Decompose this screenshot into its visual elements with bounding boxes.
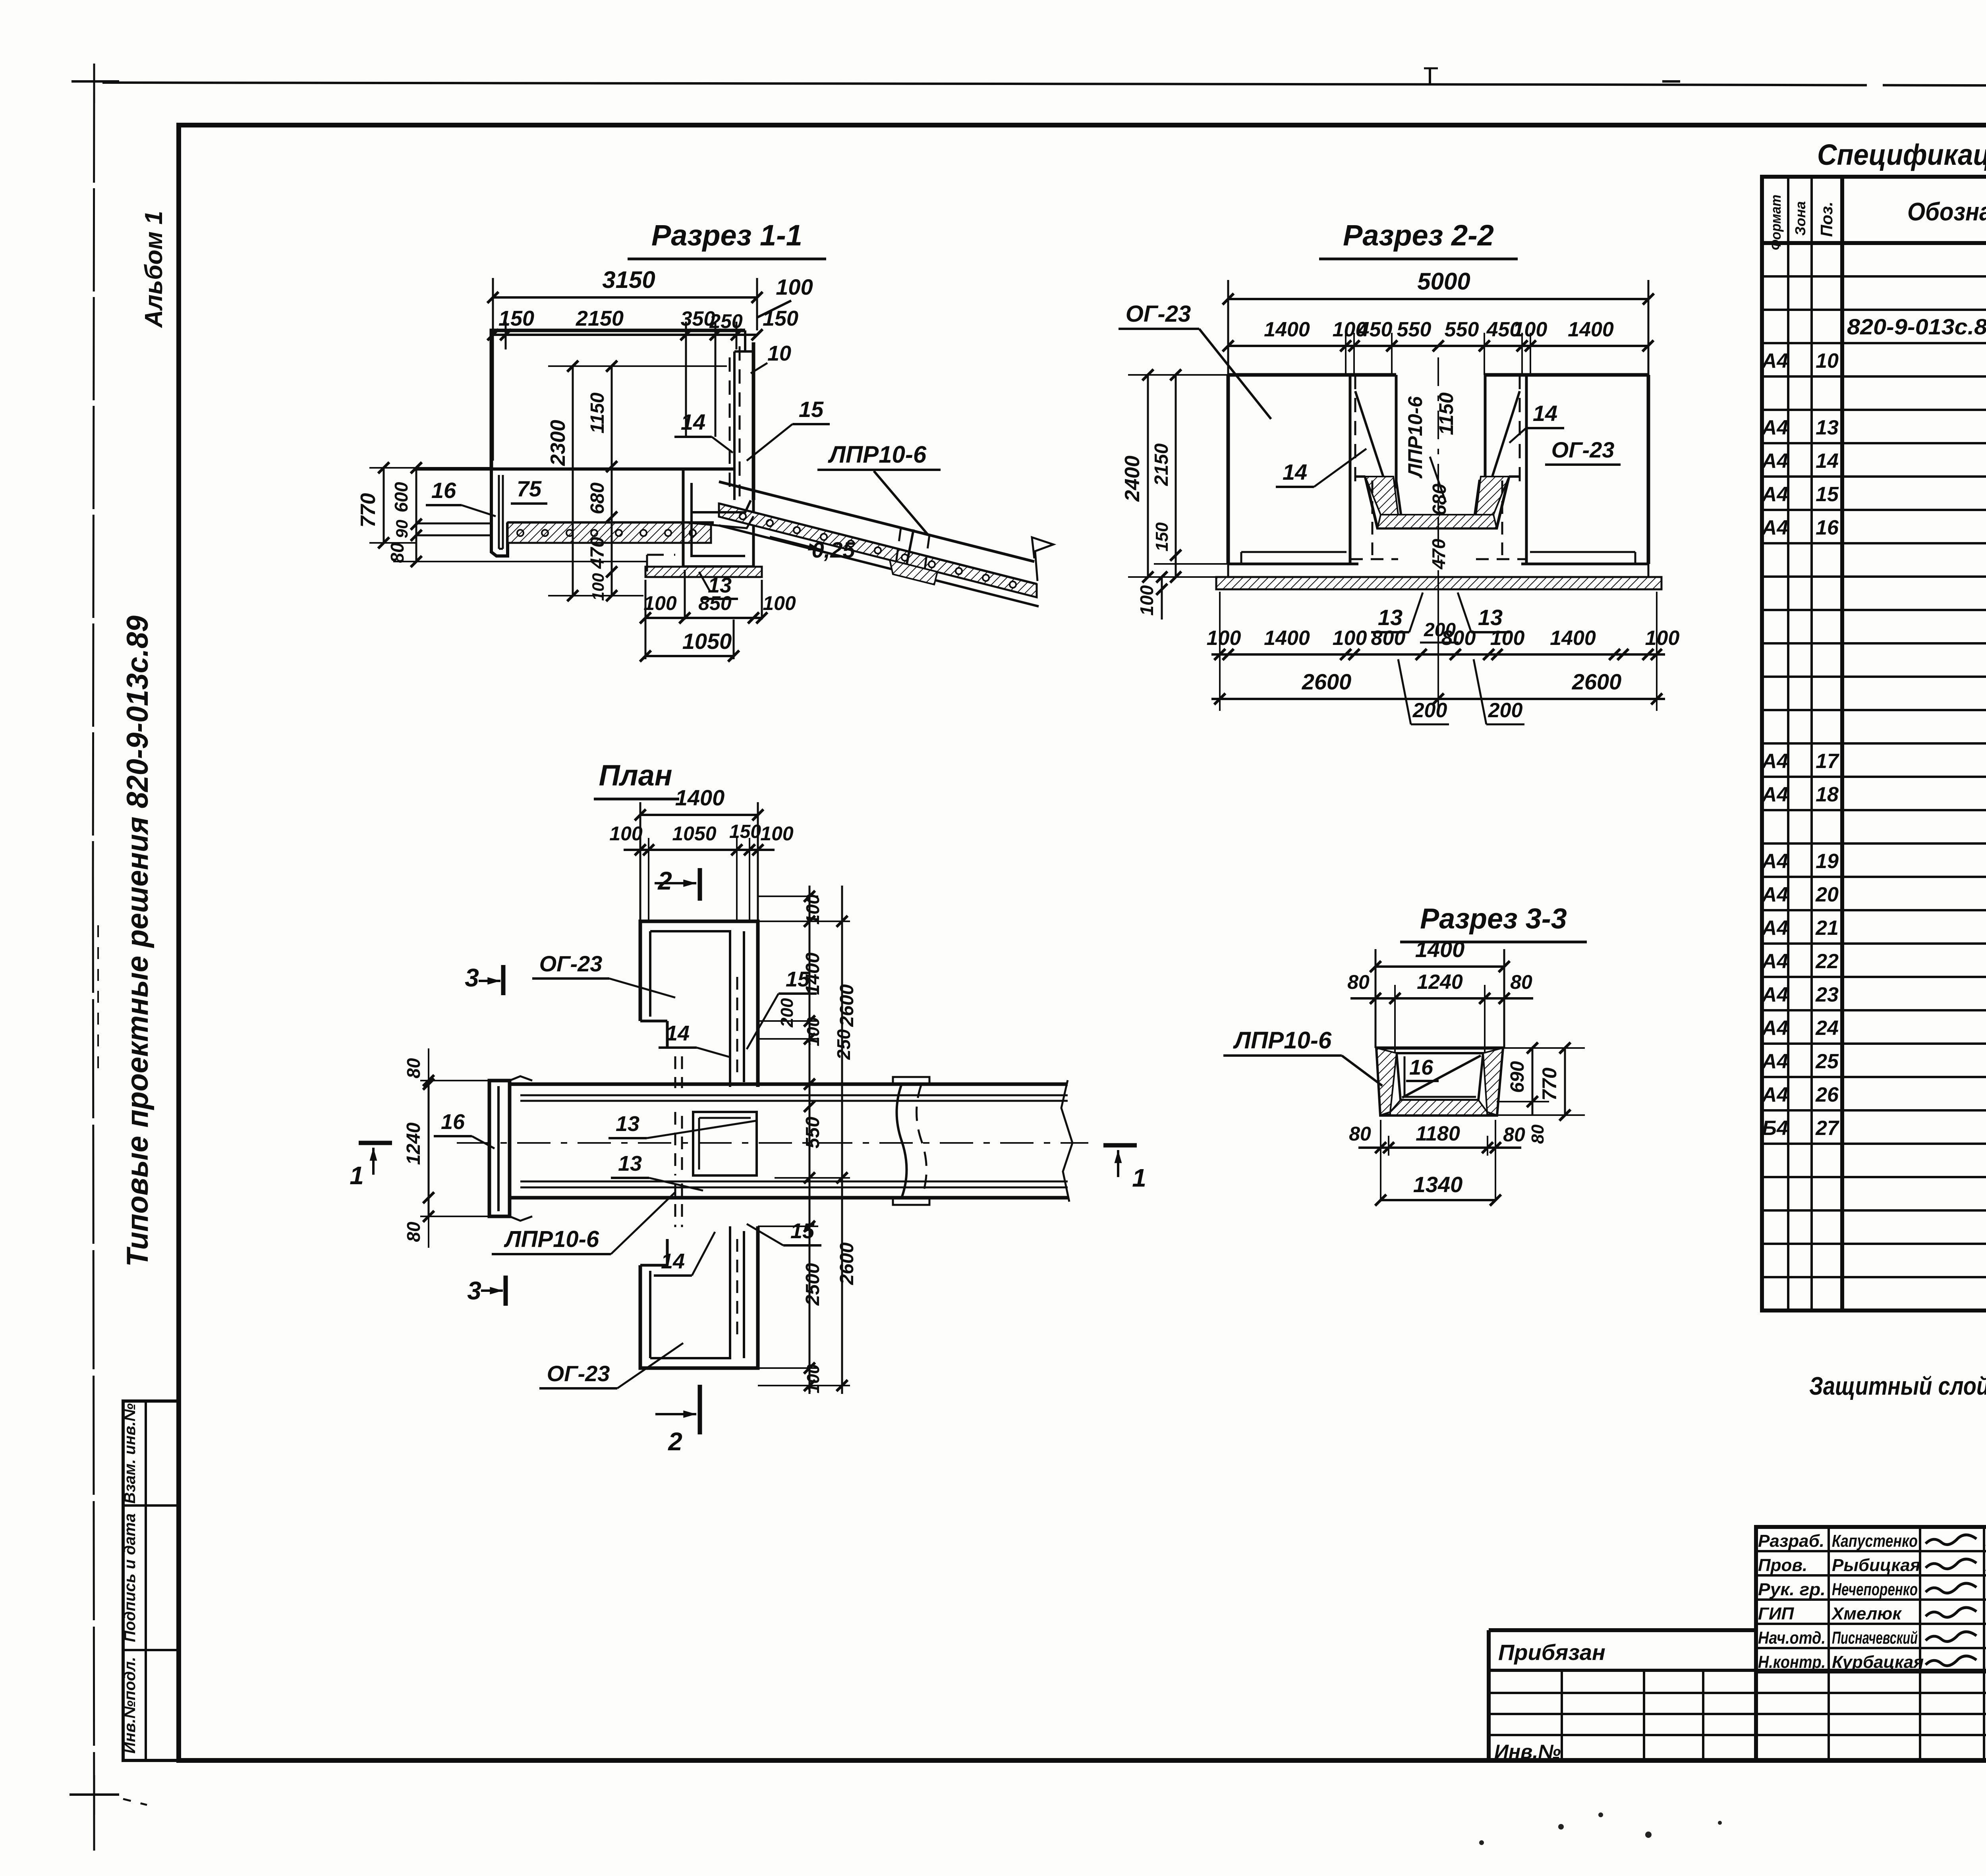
- section 2-2 centerline: [1437, 357, 1439, 627]
- svg-text:ЛПР10-6: ЛПР10-6: [1404, 396, 1426, 479]
- svg-text:10: 10: [1816, 349, 1839, 372]
- drawing frame: [179, 125, 1986, 1760]
- svg-text:Защитный слой для рабочей арма: Защитный слой для рабочей арматуры соста…: [1809, 1372, 1986, 1400]
- svg-text:Рыбицкая: Рыбицкая: [1832, 1556, 1920, 1575]
- svg-text:100: 100: [643, 592, 677, 614]
- svg-text:План: План: [599, 759, 672, 792]
- svg-text:Нач.отд.: Нач.отд.: [1758, 1628, 1826, 1648]
- svg-text:100: 100: [1136, 585, 1157, 616]
- svg-text:22: 22: [1815, 950, 1839, 973]
- svg-text:3: 3: [465, 963, 479, 992]
- svg-text:Типовые проектные решения: Типовые проектные решения 820-9-013с.89: [121, 616, 155, 1267]
- section 1-1 sloped flume LPR10-6: [719, 482, 1034, 562]
- section 2-2 base slab: [1216, 577, 1661, 589]
- svg-text:1340: 1340: [1413, 1172, 1463, 1197]
- svg-text:100: 100: [589, 573, 607, 601]
- title block signature grid: [1756, 1527, 1986, 1760]
- svg-text:2150: 2150: [576, 307, 624, 330]
- svg-text:А4: А4: [1761, 416, 1789, 439]
- section 2-2 dim 5000: [1228, 298, 1648, 300]
- plan top dim chain 100/1050/150/100: [624, 849, 775, 851]
- svg-text:470: 470: [1428, 538, 1449, 569]
- svg-text:1400: 1400: [1264, 627, 1310, 650]
- svg-text:Пров.: Пров.: [1758, 1556, 1807, 1575]
- svg-text:А4: А4: [1761, 1017, 1789, 1040]
- svg-text:ОГ-23: ОГ-23: [547, 1361, 610, 1386]
- svg-text:ЛПР10-6: ЛПР10-6: [1233, 1027, 1332, 1054]
- svg-text:Б4: Б4: [1762, 1117, 1788, 1140]
- plan flume body: [510, 1083, 1068, 1086]
- section 1-1 dim 3150: [493, 296, 757, 299]
- svg-text:26: 26: [1815, 1083, 1839, 1106]
- plan right dim chains: [809, 886, 811, 1394]
- svg-text:А4: А4: [1761, 950, 1789, 973]
- section 3-3 dim 1340: [1381, 1199, 1495, 1201]
- svg-text:5000: 5000: [1417, 268, 1470, 295]
- plan flume right break: [1061, 1080, 1072, 1202]
- svg-text:0,25: 0,25: [812, 537, 856, 562]
- svg-text:Рук. гр.: Рук. гр.: [1758, 1580, 1826, 1599]
- svg-text:А4: А4: [1761, 783, 1789, 806]
- section 3-3 dim chain 80/1240/80: [1350, 997, 1533, 1000]
- svg-text:15: 15: [799, 397, 824, 422]
- svg-text:Разрез 3-3: Разрез 3-3: [1420, 903, 1567, 935]
- svg-text:Нечепоренко: Нечепоренко: [1832, 1580, 1918, 1599]
- svg-text:200: 200: [1412, 699, 1447, 722]
- svg-text:Инв.№подл.: Инв.№подл.: [121, 1657, 139, 1754]
- svg-text:А4: А4: [1761, 1050, 1789, 1073]
- plan center crossing dashed: [674, 1056, 676, 1088]
- svg-text:200: 200: [777, 998, 797, 1028]
- svg-text:14: 14: [1283, 459, 1307, 484]
- svg-text:27: 27: [1815, 1117, 1839, 1140]
- svg-text:А4: А4: [1761, 983, 1789, 1006]
- svg-text:А4: А4: [1761, 917, 1789, 940]
- svg-text:770: 770: [1538, 1067, 1561, 1101]
- slope 0.25 arrow: [770, 537, 821, 550]
- section 1-1 rebar 14,15 dashed: [739, 346, 741, 496]
- svg-text:2400: 2400: [1121, 455, 1144, 502]
- svg-text:ГИП: ГИП: [1758, 1604, 1795, 1623]
- svg-text:Писначевский: Писначевский: [1832, 1628, 1918, 1648]
- svg-text:19: 19: [1816, 850, 1839, 873]
- svg-text:1400: 1400: [1568, 318, 1614, 341]
- svg-text:75: 75: [517, 476, 542, 501]
- svg-text:А4: А4: [1761, 1083, 1789, 1106]
- svg-text:550: 550: [1397, 318, 1432, 341]
- svg-text:1050: 1050: [682, 629, 732, 654]
- spec table column lines: [1787, 177, 1789, 1310]
- section 1-1 foundation hatched strip: [508, 523, 711, 543]
- section 2-2 dim chain 1400/100/450/550/550/450/100/1400: [1228, 345, 1648, 347]
- svg-text:1400: 1400: [675, 785, 725, 810]
- svg-text:80: 80: [403, 1058, 424, 1079]
- flume elbow at wall: [692, 500, 751, 512]
- svg-text:10: 10: [767, 342, 791, 365]
- scan corner mark bottom-left: [70, 1793, 119, 1796]
- section 1-1 floor slab: [417, 467, 734, 471]
- svg-text:450: 450: [1358, 318, 1393, 341]
- svg-text:100: 100: [802, 894, 823, 924]
- svg-text:13: 13: [616, 1112, 639, 1136]
- svg-text:1240: 1240: [403, 1122, 424, 1165]
- svg-text:13: 13: [618, 1152, 642, 1175]
- svg-text:770: 770: [357, 493, 380, 528]
- svg-text:21: 21: [1815, 917, 1839, 940]
- spec table outer border: [1762, 177, 1986, 1310]
- flume joint collar: [906, 529, 914, 566]
- svg-text:680: 680: [1429, 484, 1450, 515]
- svg-text:ЛПР10-6: ЛПР10-6: [828, 441, 927, 468]
- svg-text:80: 80: [1347, 971, 1370, 993]
- section 1-1 middle vertical dims: [572, 366, 574, 596]
- svg-text:18: 18: [1816, 783, 1839, 806]
- svg-text:1180: 1180: [1416, 1122, 1460, 1145]
- section 3-3 right dims: [1532, 1048, 1534, 1115]
- svg-text:100: 100: [763, 592, 796, 614]
- section 1-1 left dim chain: [383, 468, 385, 543]
- svg-text:14: 14: [1816, 450, 1839, 473]
- svg-text:16: 16: [441, 1110, 465, 1134]
- svg-text:14: 14: [681, 409, 705, 434]
- svg-text:1: 1: [1132, 1164, 1146, 1192]
- svg-text:14: 14: [1533, 401, 1557, 426]
- section 2-2 bottom dim chain 2: [1211, 698, 1665, 700]
- svg-text:550: 550: [1445, 318, 1479, 341]
- section 1-1 dim chain 150/2150/350/250/150: [493, 334, 757, 336]
- svg-text:850: 850: [698, 592, 732, 614]
- svg-text:100: 100: [1207, 627, 1241, 650]
- section 1-1 hidden dashed outline: [647, 555, 685, 577]
- svg-text:Обозначение: Обозначение: [1907, 197, 1986, 226]
- svg-text:100: 100: [609, 822, 643, 845]
- svg-text:2: 2: [668, 1427, 682, 1456]
- flume end break: [1032, 537, 1053, 581]
- svg-text:80: 80: [387, 542, 408, 563]
- svg-text:2600: 2600: [1572, 669, 1622, 694]
- svg-text:Хмелюк: Хмелюк: [1831, 1604, 1902, 1623]
- svg-text:ОГ-23: ОГ-23: [539, 951, 603, 976]
- svg-text:100: 100: [1645, 627, 1680, 650]
- svg-text:150: 150: [1152, 522, 1172, 552]
- svg-text:2600: 2600: [837, 1242, 858, 1285]
- svg-text:2150: 2150: [1151, 443, 1172, 486]
- svg-text:20: 20: [1815, 883, 1839, 906]
- svg-text:1400: 1400: [802, 952, 823, 995]
- section 2-2 bottom dim chain 1: [1211, 653, 1665, 656]
- svg-text:1240: 1240: [1417, 971, 1463, 994]
- svg-text:80: 80: [1349, 1123, 1371, 1145]
- scan page top edge line: [102, 83, 1589, 85]
- svg-text:150: 150: [729, 821, 761, 842]
- plan flume centerline: [457, 1142, 1088, 1144]
- svg-text:2600: 2600: [837, 984, 858, 1027]
- svg-text:Взам. инв.№: Взам. инв.№: [121, 1403, 139, 1504]
- svg-text:550: 550: [802, 1117, 823, 1148]
- svg-text:1: 1: [350, 1161, 364, 1190]
- svg-text:2600: 2600: [1302, 669, 1352, 694]
- plan section marker 1 left: [359, 1141, 392, 1145]
- svg-text:17: 17: [1816, 750, 1839, 773]
- svg-text:А4: А4: [1761, 750, 1789, 773]
- svg-text:1400: 1400: [1264, 318, 1310, 341]
- svg-text:Прибязан: Прибязан: [1498, 1640, 1605, 1665]
- svg-text:820-9-013с.89-КЖИ-: 820-9-013с.89-КЖИ-: [1847, 314, 1986, 339]
- svg-text:Разраб.: Разраб.: [1758, 1531, 1824, 1551]
- section 2-2 inner slope diagonals: [1355, 391, 1395, 512]
- svg-text:Разрез 1-1: Разрез 1-1: [651, 219, 802, 252]
- scan artifact top-center marks: [1429, 68, 1431, 85]
- svg-text:ОГ-23: ОГ-23: [1551, 437, 1615, 462]
- svg-text:25: 25: [1815, 1050, 1839, 1073]
- svg-text:Инв.№: Инв.№: [1494, 1741, 1561, 1763]
- section 2-2 left dim chains: [1147, 375, 1149, 577]
- svg-text:Формат: Формат: [1768, 195, 1784, 250]
- svg-text:16: 16: [1409, 1056, 1433, 1079]
- svg-text:23: 23: [1815, 983, 1839, 1006]
- svg-text:1150: 1150: [587, 392, 608, 434]
- spec table header row: [1762, 241, 1986, 245]
- svg-text:2300: 2300: [547, 420, 570, 466]
- svg-text:Зона: Зона: [1792, 201, 1808, 236]
- svg-text:Подпись и дата: Подпись и дата: [121, 1513, 139, 1642]
- svg-text:Альбом 1: Альбом 1: [140, 211, 168, 328]
- section 2-2 extension lines bottom: [1219, 592, 1221, 711]
- svg-text:Поз.: Поз.: [1817, 202, 1836, 237]
- svg-text:150: 150: [498, 307, 534, 330]
- section 1-1 channel foundation pad: [645, 567, 762, 577]
- signatures squiggles: [1926, 1535, 1976, 1545]
- svg-text:470: 470: [587, 537, 608, 569]
- svg-text:15: 15: [1816, 483, 1839, 506]
- svg-text:80: 80: [1503, 1123, 1525, 1146]
- section 3-3 trapezoid channel: [1377, 1048, 1503, 1115]
- spec table row lines: [1762, 275, 1986, 278]
- section 3-3 bottom dim chain 80/1180/80: [1358, 1146, 1521, 1149]
- svg-text:90: 90: [392, 520, 411, 538]
- svg-text:3150: 3150: [602, 266, 655, 293]
- svg-text:1400: 1400: [1550, 627, 1596, 650]
- svg-text:14: 14: [666, 1021, 690, 1045]
- plan top dim 1400: [640, 814, 758, 816]
- svg-text:600: 600: [391, 482, 411, 512]
- svg-text:3: 3: [467, 1276, 481, 1305]
- svg-text:100: 100: [760, 822, 794, 845]
- svg-text:690: 690: [1507, 1061, 1528, 1093]
- section 2-2 flume cross profile: [1365, 477, 1509, 528]
- svg-text:1400: 1400: [1415, 937, 1465, 962]
- svg-text:100: 100: [776, 274, 813, 299]
- svg-text:А4: А4: [1761, 883, 1789, 906]
- section 2-2 rebar dashed: [1372, 481, 1374, 562]
- section 1-1 bottom dims: [645, 617, 762, 619]
- svg-text:150: 150: [763, 307, 798, 330]
- scan corner mark top-left: [71, 80, 119, 83]
- plan flume left cap (16): [489, 1081, 510, 1216]
- plan flume joint mid: [897, 1084, 907, 1198]
- plan section marker 1 right: [1103, 1143, 1137, 1148]
- svg-text:13: 13: [1378, 605, 1403, 630]
- svg-text:А4: А4: [1761, 349, 1789, 372]
- svg-text:800: 800: [1371, 627, 1406, 650]
- svg-text:680: 680: [587, 483, 608, 514]
- scan page left edge dashed line: [93, 79, 94, 874]
- svg-text:200: 200: [1488, 699, 1523, 722]
- svg-text:14: 14: [661, 1249, 685, 1273]
- svg-text:2500: 2500: [802, 1263, 823, 1306]
- svg-text:ОГ-23: ОГ-23: [1126, 301, 1191, 327]
- section 3-3 inner diagonal: [1402, 1056, 1481, 1098]
- svg-text:15: 15: [790, 1219, 815, 1243]
- svg-text:80: 80: [403, 1222, 424, 1242]
- svg-text:24: 24: [1815, 1017, 1839, 1040]
- svg-text:13: 13: [1816, 416, 1839, 439]
- svg-text:13: 13: [1478, 605, 1503, 630]
- plan upper OG-23 block: [640, 921, 758, 1087]
- section 1-1 upstream wall cap (pos 16): [491, 469, 508, 556]
- section 1-1 lower channel: [683, 469, 753, 567]
- plan left dims 80/1240/80: [428, 1081, 430, 1216]
- title block lower-left grid: [1489, 1628, 1756, 1632]
- svg-text:100: 100: [1333, 627, 1367, 650]
- svg-text:250: 250: [833, 1029, 854, 1060]
- svg-text:1050: 1050: [672, 822, 716, 845]
- svg-text:16: 16: [431, 478, 456, 503]
- section 1-1 wall outline: [491, 330, 745, 469]
- svg-text:А4: А4: [1761, 516, 1789, 539]
- svg-text:1150: 1150: [1435, 392, 1457, 435]
- plan lower OG-23 block: [640, 1226, 758, 1368]
- svg-text:2: 2: [657, 867, 672, 895]
- svg-text:А4: А4: [1761, 850, 1789, 873]
- svg-text:80: 80: [1510, 971, 1532, 993]
- svg-text:80: 80: [1528, 1124, 1547, 1144]
- svg-text:А4: А4: [1761, 483, 1789, 506]
- svg-text:100: 100: [1490, 627, 1525, 650]
- margin stamp table: [123, 1401, 179, 1760]
- svg-text:Спецификация к схеме армиро: Спецификация к схеме армирования: [1817, 138, 1986, 171]
- svg-text:16: 16: [1816, 516, 1839, 539]
- svg-text:А4: А4: [1761, 450, 1789, 473]
- section 1-1 upstream floor lines: [417, 523, 491, 525]
- svg-text:Капустенко: Капустенко: [1832, 1531, 1918, 1551]
- section 2-2 structure outline: [1228, 373, 1396, 377]
- scan bottom speckles: [1558, 1824, 1564, 1830]
- svg-text:ЛПР10-6: ЛПР10-6: [504, 1226, 599, 1252]
- svg-text:200: 200: [1424, 620, 1456, 641]
- svg-text:Разрез 2-2: Разрез 2-2: [1343, 219, 1494, 252]
- section 3-3 dim 1400: [1376, 965, 1504, 968]
